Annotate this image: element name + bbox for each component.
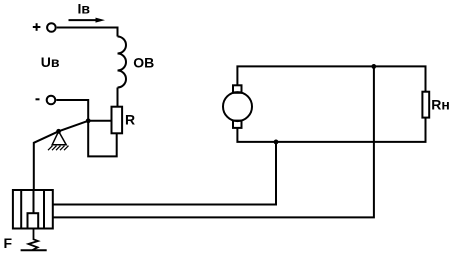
svg-text:Uв: Uв <box>41 54 60 70</box>
svg-text:Iв: Iв <box>78 0 91 16</box>
current arrow Iв <box>69 18 106 23</box>
terminal minus <box>47 96 56 105</box>
F center electrode wire <box>33 190 35 213</box>
F center electrode cup <box>28 213 39 228</box>
brush bottom <box>233 121 242 128</box>
field winding OB <box>118 37 127 88</box>
svg-text:Rн: Rн <box>431 96 450 112</box>
spring lead <box>28 229 38 251</box>
armature M <box>223 92 252 121</box>
label + <box>33 23 41 31</box>
load resistor Rн <box>422 92 429 118</box>
junction dot A <box>86 118 91 123</box>
photocell F box <box>13 190 53 229</box>
junction dot B <box>274 140 279 145</box>
svg-text:F: F <box>4 235 13 251</box>
svg-text:R: R <box>125 112 135 128</box>
wire from - terminal down and to R bottom <box>56 100 116 156</box>
pivot dot <box>56 129 61 134</box>
junction dot C <box>371 64 376 69</box>
terminal + <box>47 23 56 32</box>
rheostat R <box>112 107 123 134</box>
wire bottom bus <box>237 118 425 142</box>
wiper tap wire <box>88 120 111 122</box>
label minus <box>36 98 40 100</box>
wire coil to rheostat R <box>117 88 119 108</box>
wire F lower output <box>53 66 374 217</box>
F box inner plate right <box>43 190 45 229</box>
wire from + terminal to coil <box>57 28 118 37</box>
wire top bus <box>237 66 425 91</box>
ground line <box>21 249 47 251</box>
svg-text:ОВ: ОВ <box>133 54 154 70</box>
F box inner plate left <box>20 190 22 229</box>
support hatching <box>48 146 69 151</box>
wiper arm <box>34 121 88 190</box>
wire F upper output <box>53 142 276 205</box>
pivot support triangle <box>52 131 66 144</box>
brush top <box>233 85 242 93</box>
